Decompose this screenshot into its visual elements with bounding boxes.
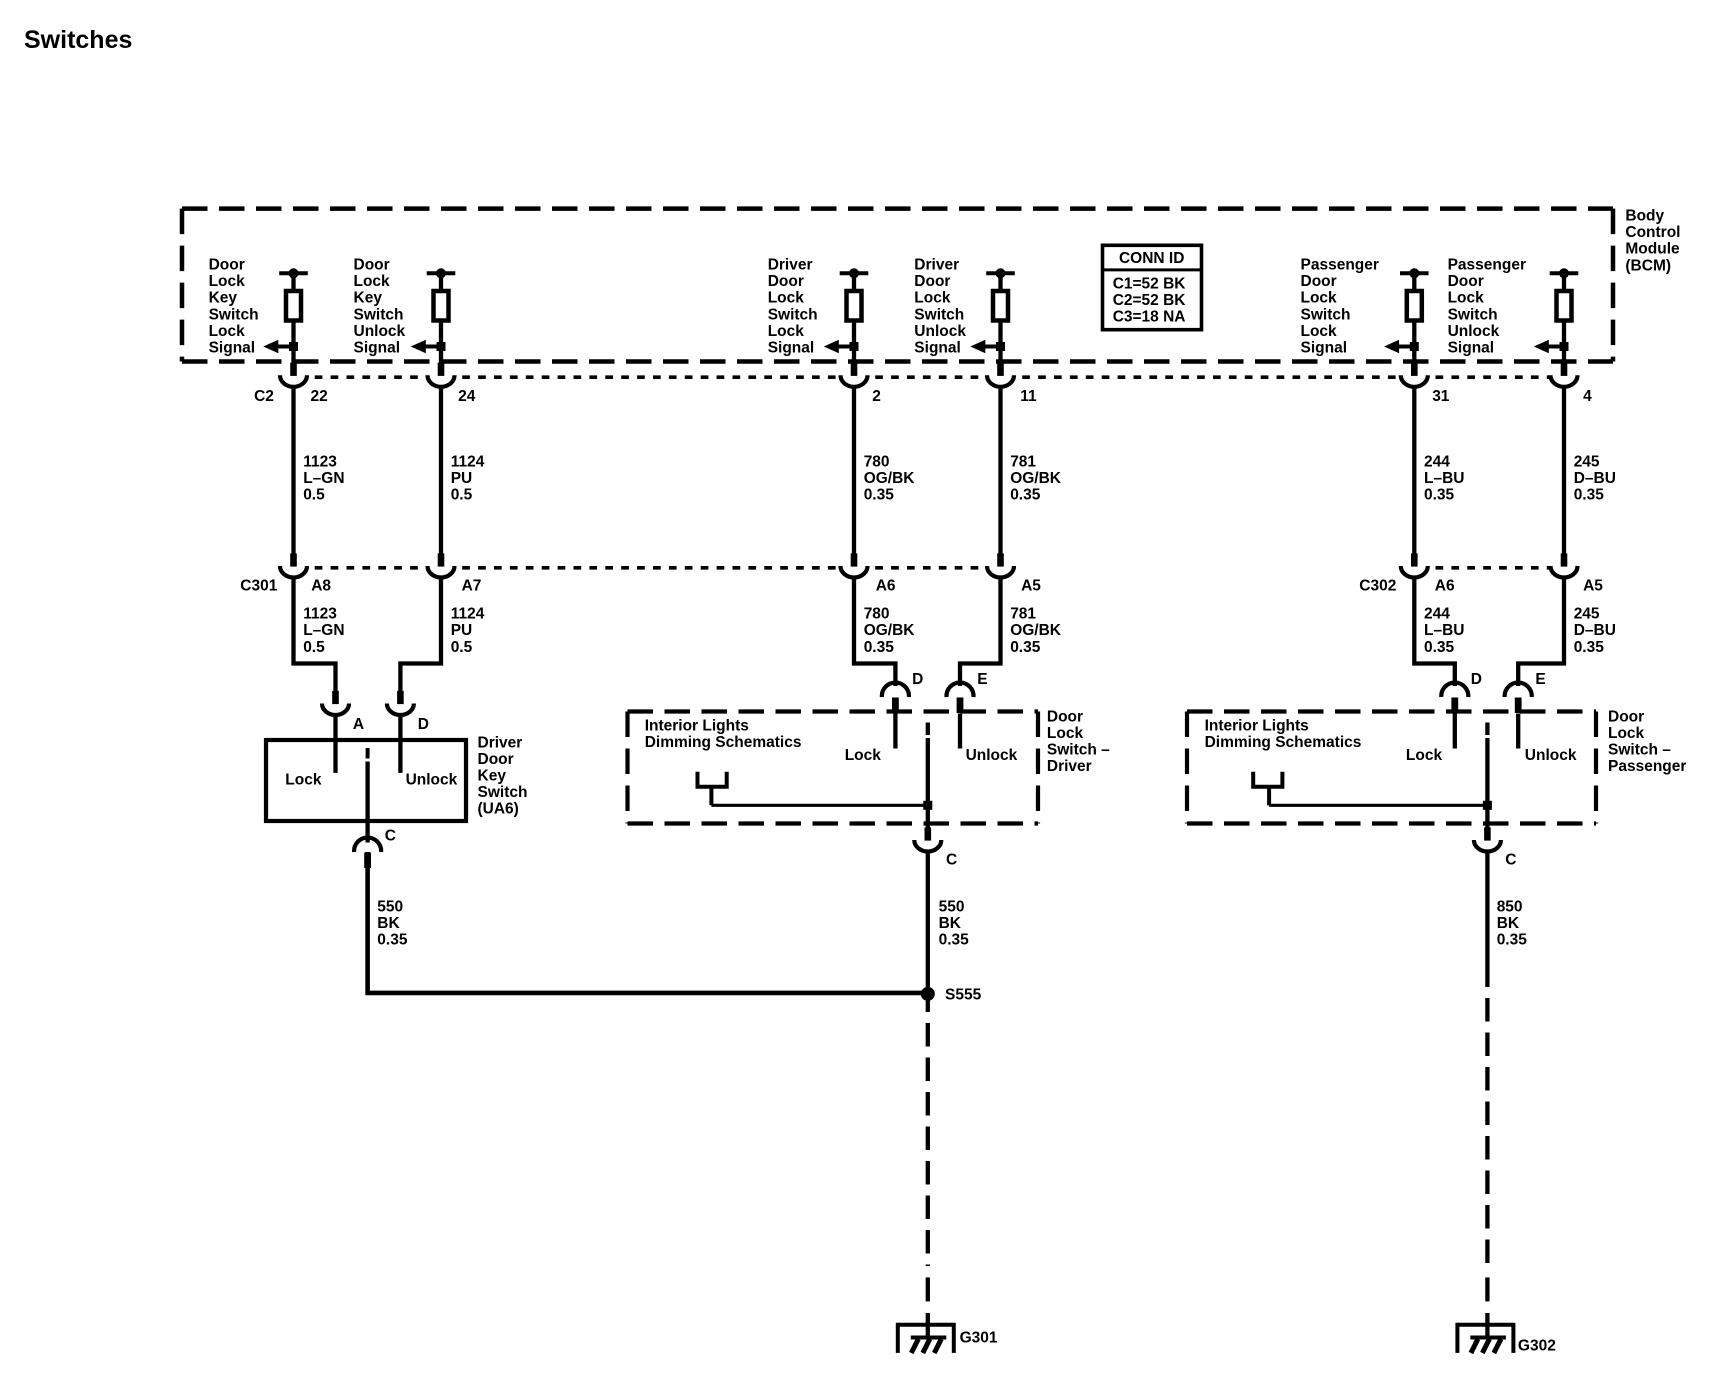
- svg-text:A7: A7: [462, 578, 482, 595]
- resistor Driver Door Lock Switch Unlock Signal: [986, 268, 1015, 363]
- svg-text:Key: Key: [478, 768, 507, 785]
- splice S555: [921, 987, 935, 1001]
- svg-text:Signal: Signal: [1301, 340, 1348, 357]
- wire 1123 L–GN 0.5 (to switch): [294, 579, 336, 691]
- svg-text:Switches: Switches: [24, 26, 132, 54]
- svg-text:244: 244: [1424, 606, 1450, 623]
- svg-text:A: A: [353, 716, 364, 733]
- svg-text:BK: BK: [1497, 915, 1520, 932]
- wire 780 OG/BK 0.35 (C2 to C301): [852, 388, 856, 553]
- label Driver Door Lock Switch Unlock Signal: [914, 257, 966, 357]
- label Driver Door Lock Switch Lock Signal: [768, 257, 818, 357]
- svg-text:11: 11: [1020, 388, 1037, 405]
- svg-text:0.35: 0.35: [1574, 639, 1605, 656]
- arrow Driver Door Lock Switch Unlock Signal: [970, 340, 1005, 354]
- svg-text:0.35: 0.35: [1424, 639, 1455, 656]
- svg-text:550: 550: [939, 899, 965, 916]
- svg-text:Lock: Lock: [1047, 725, 1084, 742]
- svg-text:1123: 1123: [303, 453, 337, 470]
- svg-text:C1=52 BK: C1=52 BK: [1113, 275, 1187, 292]
- svg-text:L–BU: L–BU: [1424, 470, 1464, 487]
- wire into G302: [1485, 1313, 1489, 1340]
- svg-text:0.35: 0.35: [864, 639, 895, 656]
- arrow Passenger Door Lock Switch Lock Signal: [1384, 340, 1419, 354]
- wire 550 BK (horizontal to S555): [366, 991, 928, 996]
- connector C2 pin 2: [841, 363, 868, 387]
- connector C301 pin A7: [428, 553, 455, 577]
- svg-text:Door: Door: [1301, 273, 1337, 290]
- connector C2 pin 24: [428, 363, 455, 387]
- driver lock switch actuator (dashed): [926, 723, 930, 736]
- svg-text:G301: G301: [960, 1330, 998, 1347]
- svg-text:1123: 1123: [303, 606, 337, 623]
- wire pin E inside passenger lock switch: [1516, 714, 1520, 749]
- svg-text:Signal: Signal: [354, 340, 401, 357]
- svg-text:0.5: 0.5: [451, 487, 473, 504]
- wire 550 BK 0.35 (driver lock switch to S555): [926, 853, 930, 987]
- svg-text:0.35: 0.35: [1010, 639, 1041, 656]
- key switch actuator (dashed): [366, 748, 370, 759]
- svg-text:Switch: Switch: [478, 784, 528, 801]
- resistor Passenger Door Lock Switch Unlock Signal: [1550, 268, 1579, 363]
- CONN ID rows: [1113, 275, 1187, 325]
- wire to G302 (dashed, off-page): [1485, 987, 1489, 1266]
- wire into G301: [926, 1313, 930, 1340]
- wire 550 BK 0.35 (key switch to S555): [365, 852, 370, 995]
- svg-text:Lock: Lock: [285, 771, 322, 788]
- svg-text:0.35: 0.35: [1574, 487, 1605, 504]
- wire 781 OG/BK 0.35 (to switch): [960, 579, 1001, 686]
- passenger lock switch actuator (dashed): [1485, 723, 1489, 736]
- passenger lock switch connector pin D: [1441, 683, 1468, 713]
- svg-text:781: 781: [1010, 453, 1036, 470]
- svg-text:E: E: [977, 671, 987, 688]
- svg-text:245: 245: [1574, 453, 1600, 470]
- svg-text:C: C: [385, 828, 396, 845]
- connector line C302 (dotted): [1427, 566, 1551, 570]
- wire 1124 PU 0.5 (C2 to C301): [439, 388, 443, 553]
- resistor Driver Door Lock Switch Lock Signal: [840, 268, 869, 363]
- wire below S555: [926, 1000, 930, 1012]
- wire pin D inside driver lock switch: [893, 714, 897, 749]
- wire label 550 BK 0.35: [377, 899, 408, 949]
- svg-text:Control: Control: [1625, 224, 1680, 241]
- svg-text:4: 4: [1583, 388, 1592, 405]
- connector C301 pin A6: [841, 553, 868, 577]
- svg-text:Switch: Switch: [209, 306, 259, 323]
- svg-text:22: 22: [311, 388, 328, 405]
- wire label 1123 L–GN 0.5: [303, 453, 344, 503]
- passenger lock switch connector pin E: [1505, 683, 1532, 713]
- resistor Door Lock Key Switch Lock Signal: [279, 268, 308, 363]
- svg-text:2: 2: [872, 388, 881, 405]
- svg-text:Key: Key: [354, 290, 383, 307]
- key switch common wire: [365, 762, 369, 843]
- wire label 780 OG/BK 0.35: [864, 453, 916, 503]
- connector line C2 (dotted): [307, 375, 1552, 379]
- BCM label: [1625, 208, 1680, 275]
- wire label 244 L–BU 0.35: [1424, 453, 1464, 503]
- svg-text:245: 245: [1574, 606, 1600, 623]
- svg-text:OG/BK: OG/BK: [1010, 622, 1062, 639]
- svg-text:BK: BK: [377, 915, 400, 932]
- wire label 1123 L–GN 0.5 (below C301): [303, 606, 344, 656]
- svg-text:Door: Door: [768, 273, 804, 290]
- wire pin D inside passenger lock switch: [1453, 714, 1457, 749]
- svg-text:244: 244: [1424, 453, 1450, 470]
- svg-text:C302: C302: [1359, 578, 1396, 595]
- svg-text:Body: Body: [1625, 208, 1664, 225]
- svg-text:Unlock: Unlock: [1525, 747, 1577, 764]
- svg-text:Passenger: Passenger: [1301, 257, 1379, 274]
- svg-text:Lock: Lock: [768, 323, 805, 340]
- svg-text:D–BU: D–BU: [1574, 470, 1616, 487]
- CONN ID table: [1101, 245, 1203, 329]
- svg-text:781: 781: [1010, 606, 1036, 623]
- svg-text:Unlock: Unlock: [914, 323, 966, 340]
- wire label 245 D–BU 0.35 (below C302): [1574, 606, 1616, 656]
- wire pin A into key switch: [333, 717, 337, 773]
- label Door Lock Key Switch Unlock Signal: [354, 257, 406, 357]
- svg-text:780: 780: [864, 606, 890, 623]
- svg-text:Switch: Switch: [1448, 306, 1498, 323]
- svg-text:Interior Lights: Interior Lights: [1205, 718, 1309, 735]
- svg-text:0.35: 0.35: [1497, 932, 1528, 949]
- svg-text:Passenger: Passenger: [1448, 257, 1526, 274]
- svg-text:G302: G302: [1518, 1338, 1556, 1355]
- interior lights dimming symbol (passenger): [1251, 772, 1284, 806]
- svg-text:Key: Key: [209, 290, 238, 307]
- svg-text:Door: Door: [1448, 273, 1484, 290]
- Body Control Module (BCM) box: [182, 209, 1613, 362]
- svg-text:Signal: Signal: [768, 340, 815, 357]
- driver lock switch connector pin C: [914, 827, 941, 851]
- wire 1124 PU 0.5 (to switch): [400, 579, 441, 691]
- passenger lock switch common wire: [1485, 738, 1489, 828]
- svg-text:Door: Door: [478, 751, 514, 768]
- svg-text:L–GN: L–GN: [303, 470, 344, 487]
- wire 245 D–BU 0.35 (C2 to C301): [1562, 388, 1566, 553]
- svg-text:Switch –: Switch –: [1047, 742, 1110, 759]
- connector C302 pin A5: [1551, 553, 1578, 577]
- connector C301 pin A5: [987, 553, 1014, 577]
- svg-text:D–BU: D–BU: [1574, 622, 1616, 639]
- svg-text:A8: A8: [311, 578, 331, 595]
- svg-text:0.35: 0.35: [1010, 487, 1041, 504]
- wire 244 L–BU 0.35 (C2 to C301): [1412, 388, 1416, 553]
- svg-text:(UA6): (UA6): [478, 801, 519, 818]
- svg-text:OG/BK: OG/BK: [1010, 470, 1062, 487]
- label Door Lock Switch - Driver: [1047, 708, 1110, 775]
- svg-text:D: D: [912, 671, 923, 688]
- wire label 780 OG/BK 0.35 (below C301): [864, 606, 916, 656]
- svg-text:0.35: 0.35: [1424, 487, 1455, 504]
- svg-text:24: 24: [458, 388, 476, 405]
- connector C2 pin 22: [280, 363, 307, 387]
- label Driver Door Key Switch (UA6): [478, 734, 528, 817]
- driver lock switch connector pin E: [946, 683, 973, 713]
- svg-text:Interior Lights: Interior Lights: [645, 718, 749, 735]
- label Interior Lights Dimming Schematics (passenger): [1205, 718, 1362, 752]
- wire 1123 L–GN 0.5 (C2 to C301): [291, 388, 295, 553]
- connector C2 pin 31: [1401, 363, 1428, 387]
- svg-text:C: C: [1505, 851, 1516, 868]
- arrow Door Lock Key Switch Lock Signal: [263, 340, 298, 354]
- arrow Door Lock Key Switch Unlock Signal: [411, 340, 446, 354]
- svg-text:OG/BK: OG/BK: [864, 622, 916, 639]
- svg-text:Lock: Lock: [1406, 747, 1443, 764]
- label Door Lock Switch - Passenger: [1608, 708, 1686, 775]
- key switch connector pin A: [322, 691, 349, 715]
- ground G302: [1457, 1323, 1513, 1353]
- wire label 245 D–BU 0.35: [1574, 453, 1616, 503]
- label Passenger Door Lock Switch Lock Signal: [1301, 257, 1379, 357]
- svg-text:C2: C2: [254, 388, 274, 405]
- svg-text:Unlock: Unlock: [1448, 323, 1500, 340]
- svg-text:850: 850: [1497, 899, 1523, 916]
- svg-text:Unlock: Unlock: [354, 323, 406, 340]
- svg-text:OG/BK: OG/BK: [864, 470, 916, 487]
- svg-text:Dimming Schematics: Dimming Schematics: [1205, 734, 1362, 751]
- svg-text:A5: A5: [1021, 578, 1041, 595]
- svg-text:0.5: 0.5: [451, 639, 473, 656]
- label Interior Lights Dimming Schematics (driver): [645, 718, 802, 752]
- driver lock switch common wire: [926, 738, 930, 828]
- svg-text:(BCM): (BCM): [1625, 257, 1671, 274]
- svg-text:C: C: [946, 851, 957, 868]
- svg-text:Lock: Lock: [1608, 725, 1645, 742]
- wire 780 OG/BK 0.35 (to switch): [854, 579, 895, 686]
- svg-text:Passenger: Passenger: [1608, 758, 1686, 775]
- svg-text:31: 31: [1432, 388, 1450, 405]
- wire label 850 BK 0.35: [1497, 899, 1528, 949]
- svg-text:0.5: 0.5: [303, 487, 325, 504]
- junction (driver lock switch common): [923, 801, 932, 810]
- svg-text:0.35: 0.35: [939, 932, 970, 949]
- Door Lock Switch - Passenger box: [1187, 712, 1596, 824]
- svg-text:Door: Door: [209, 257, 245, 274]
- svg-text:Signal: Signal: [1448, 340, 1495, 357]
- svg-text:1124: 1124: [451, 606, 485, 623]
- svg-text:L–BU: L–BU: [1424, 622, 1464, 639]
- wire dimmer to common (driver): [711, 804, 927, 807]
- svg-text:550: 550: [377, 899, 403, 916]
- connector C301 pin A8: [280, 553, 307, 577]
- svg-text:PU: PU: [451, 470, 473, 487]
- svg-text:Driver: Driver: [478, 734, 523, 751]
- svg-text:Switch: Switch: [914, 306, 964, 323]
- svg-text:Lock: Lock: [914, 290, 951, 307]
- svg-text:Signal: Signal: [914, 340, 961, 357]
- svg-text:Switch: Switch: [1301, 306, 1351, 323]
- svg-text:A6: A6: [1435, 578, 1455, 595]
- connector C2 pin 11: [987, 363, 1014, 387]
- interior lights dimming symbol (driver): [696, 772, 729, 806]
- svg-text:Dimming Schematics: Dimming Schematics: [645, 734, 802, 751]
- svg-text:Door: Door: [354, 257, 390, 274]
- key switch connector pin C: [354, 838, 381, 868]
- wire label 1124 PU 0.5: [451, 453, 485, 503]
- wire pin D into key switch: [398, 717, 402, 773]
- svg-text:0.5: 0.5: [303, 639, 325, 656]
- svg-text:BK: BK: [939, 915, 962, 932]
- wire label 1124 PU 0.5 (below C301): [451, 606, 485, 656]
- svg-text:Signal: Signal: [209, 340, 256, 357]
- svg-text:A6: A6: [876, 578, 896, 595]
- label Door Lock Key Switch Lock Signal: [209, 257, 259, 357]
- wire label 550 BK 0.35 (driver): [939, 899, 970, 949]
- svg-text:Lock: Lock: [209, 273, 246, 290]
- ground G301: [898, 1323, 954, 1353]
- svg-text:Lock: Lock: [354, 273, 391, 290]
- svg-text:Unlock: Unlock: [406, 771, 458, 788]
- svg-text:Unlock: Unlock: [966, 747, 1018, 764]
- svg-text:L–GN: L–GN: [303, 622, 344, 639]
- svg-text:A5: A5: [1583, 578, 1603, 595]
- connector C302 pin A6: [1401, 553, 1428, 577]
- svg-text:D: D: [418, 716, 429, 733]
- wire S555 to G301 (dashed, off-page): [926, 1012, 930, 1266]
- svg-text:CONN ID: CONN ID: [1119, 250, 1184, 267]
- connector C2 pin 4: [1551, 363, 1578, 387]
- svg-text:Door: Door: [1608, 708, 1644, 725]
- svg-text:Lock: Lock: [845, 747, 882, 764]
- wire pin E inside driver lock switch: [958, 714, 962, 749]
- svg-text:Door: Door: [1047, 708, 1083, 725]
- wire 781 OG/BK 0.35 (C2 to C301): [998, 388, 1002, 553]
- svg-text:PU: PU: [451, 622, 473, 639]
- svg-text:Lock: Lock: [768, 290, 805, 307]
- svg-text:C301: C301: [240, 578, 277, 595]
- arrow Driver Door Lock Switch Lock Signal: [824, 340, 859, 354]
- svg-text:Driver: Driver: [914, 257, 959, 274]
- arrow Passenger Door Lock Switch Unlock Signal: [1534, 340, 1569, 354]
- svg-text:E: E: [1535, 671, 1545, 688]
- svg-text:Lock: Lock: [1301, 290, 1338, 307]
- svg-text:Switch –: Switch –: [1608, 742, 1671, 759]
- driver lock switch connector pin D: [882, 683, 909, 713]
- wire dimmer to common (passenger): [1269, 804, 1487, 807]
- connector line C301 (dotted): [307, 566, 988, 570]
- svg-text:Door: Door: [914, 273, 950, 290]
- svg-text:D: D: [1471, 671, 1482, 688]
- wire label 781 OG/BK 0.35 (below C301): [1010, 606, 1062, 656]
- svg-text:780: 780: [864, 453, 890, 470]
- wire 850 BK 0.35 (passenger lock switch): [1485, 853, 1489, 987]
- svg-text:C3=18 NA: C3=18 NA: [1113, 309, 1186, 326]
- label Passenger Door Lock Switch Unlock Signal: [1448, 257, 1526, 357]
- wire label 781 OG/BK 0.35: [1010, 453, 1062, 503]
- svg-text:S555: S555: [945, 987, 982, 1004]
- svg-text:Driver: Driver: [1047, 758, 1092, 775]
- key switch connector pin D: [387, 691, 414, 715]
- junction (passenger lock switch common): [1483, 801, 1492, 810]
- svg-text:Lock: Lock: [209, 323, 246, 340]
- svg-text:0.35: 0.35: [377, 932, 408, 949]
- wire 244 L–BU 0.35 (to switch): [1414, 579, 1455, 686]
- svg-text:Switch: Switch: [354, 306, 404, 323]
- svg-text:Lock: Lock: [1448, 290, 1485, 307]
- svg-text:Driver: Driver: [768, 257, 813, 274]
- svg-text:0.35: 0.35: [864, 487, 895, 504]
- svg-text:Lock: Lock: [1301, 323, 1338, 340]
- svg-text:Module: Module: [1625, 241, 1680, 258]
- Door Lock Switch - Driver box: [628, 712, 1039, 824]
- passenger lock switch connector pin C: [1474, 827, 1501, 851]
- wire label 244 L–BU 0.35 (below C302): [1424, 606, 1464, 656]
- resistor Passenger Door Lock Switch Lock Signal: [1400, 268, 1429, 363]
- svg-text:C2=52 BK: C2=52 BK: [1113, 292, 1187, 309]
- svg-text:Switch: Switch: [768, 306, 818, 323]
- resistor Door Lock Key Switch Unlock Signal: [427, 268, 456, 363]
- svg-text:1124: 1124: [451, 453, 485, 470]
- wire 245 D–BU 0.35 (to switch): [1518, 579, 1564, 686]
- Driver Door Key Switch (UA6) box: [266, 740, 466, 821]
